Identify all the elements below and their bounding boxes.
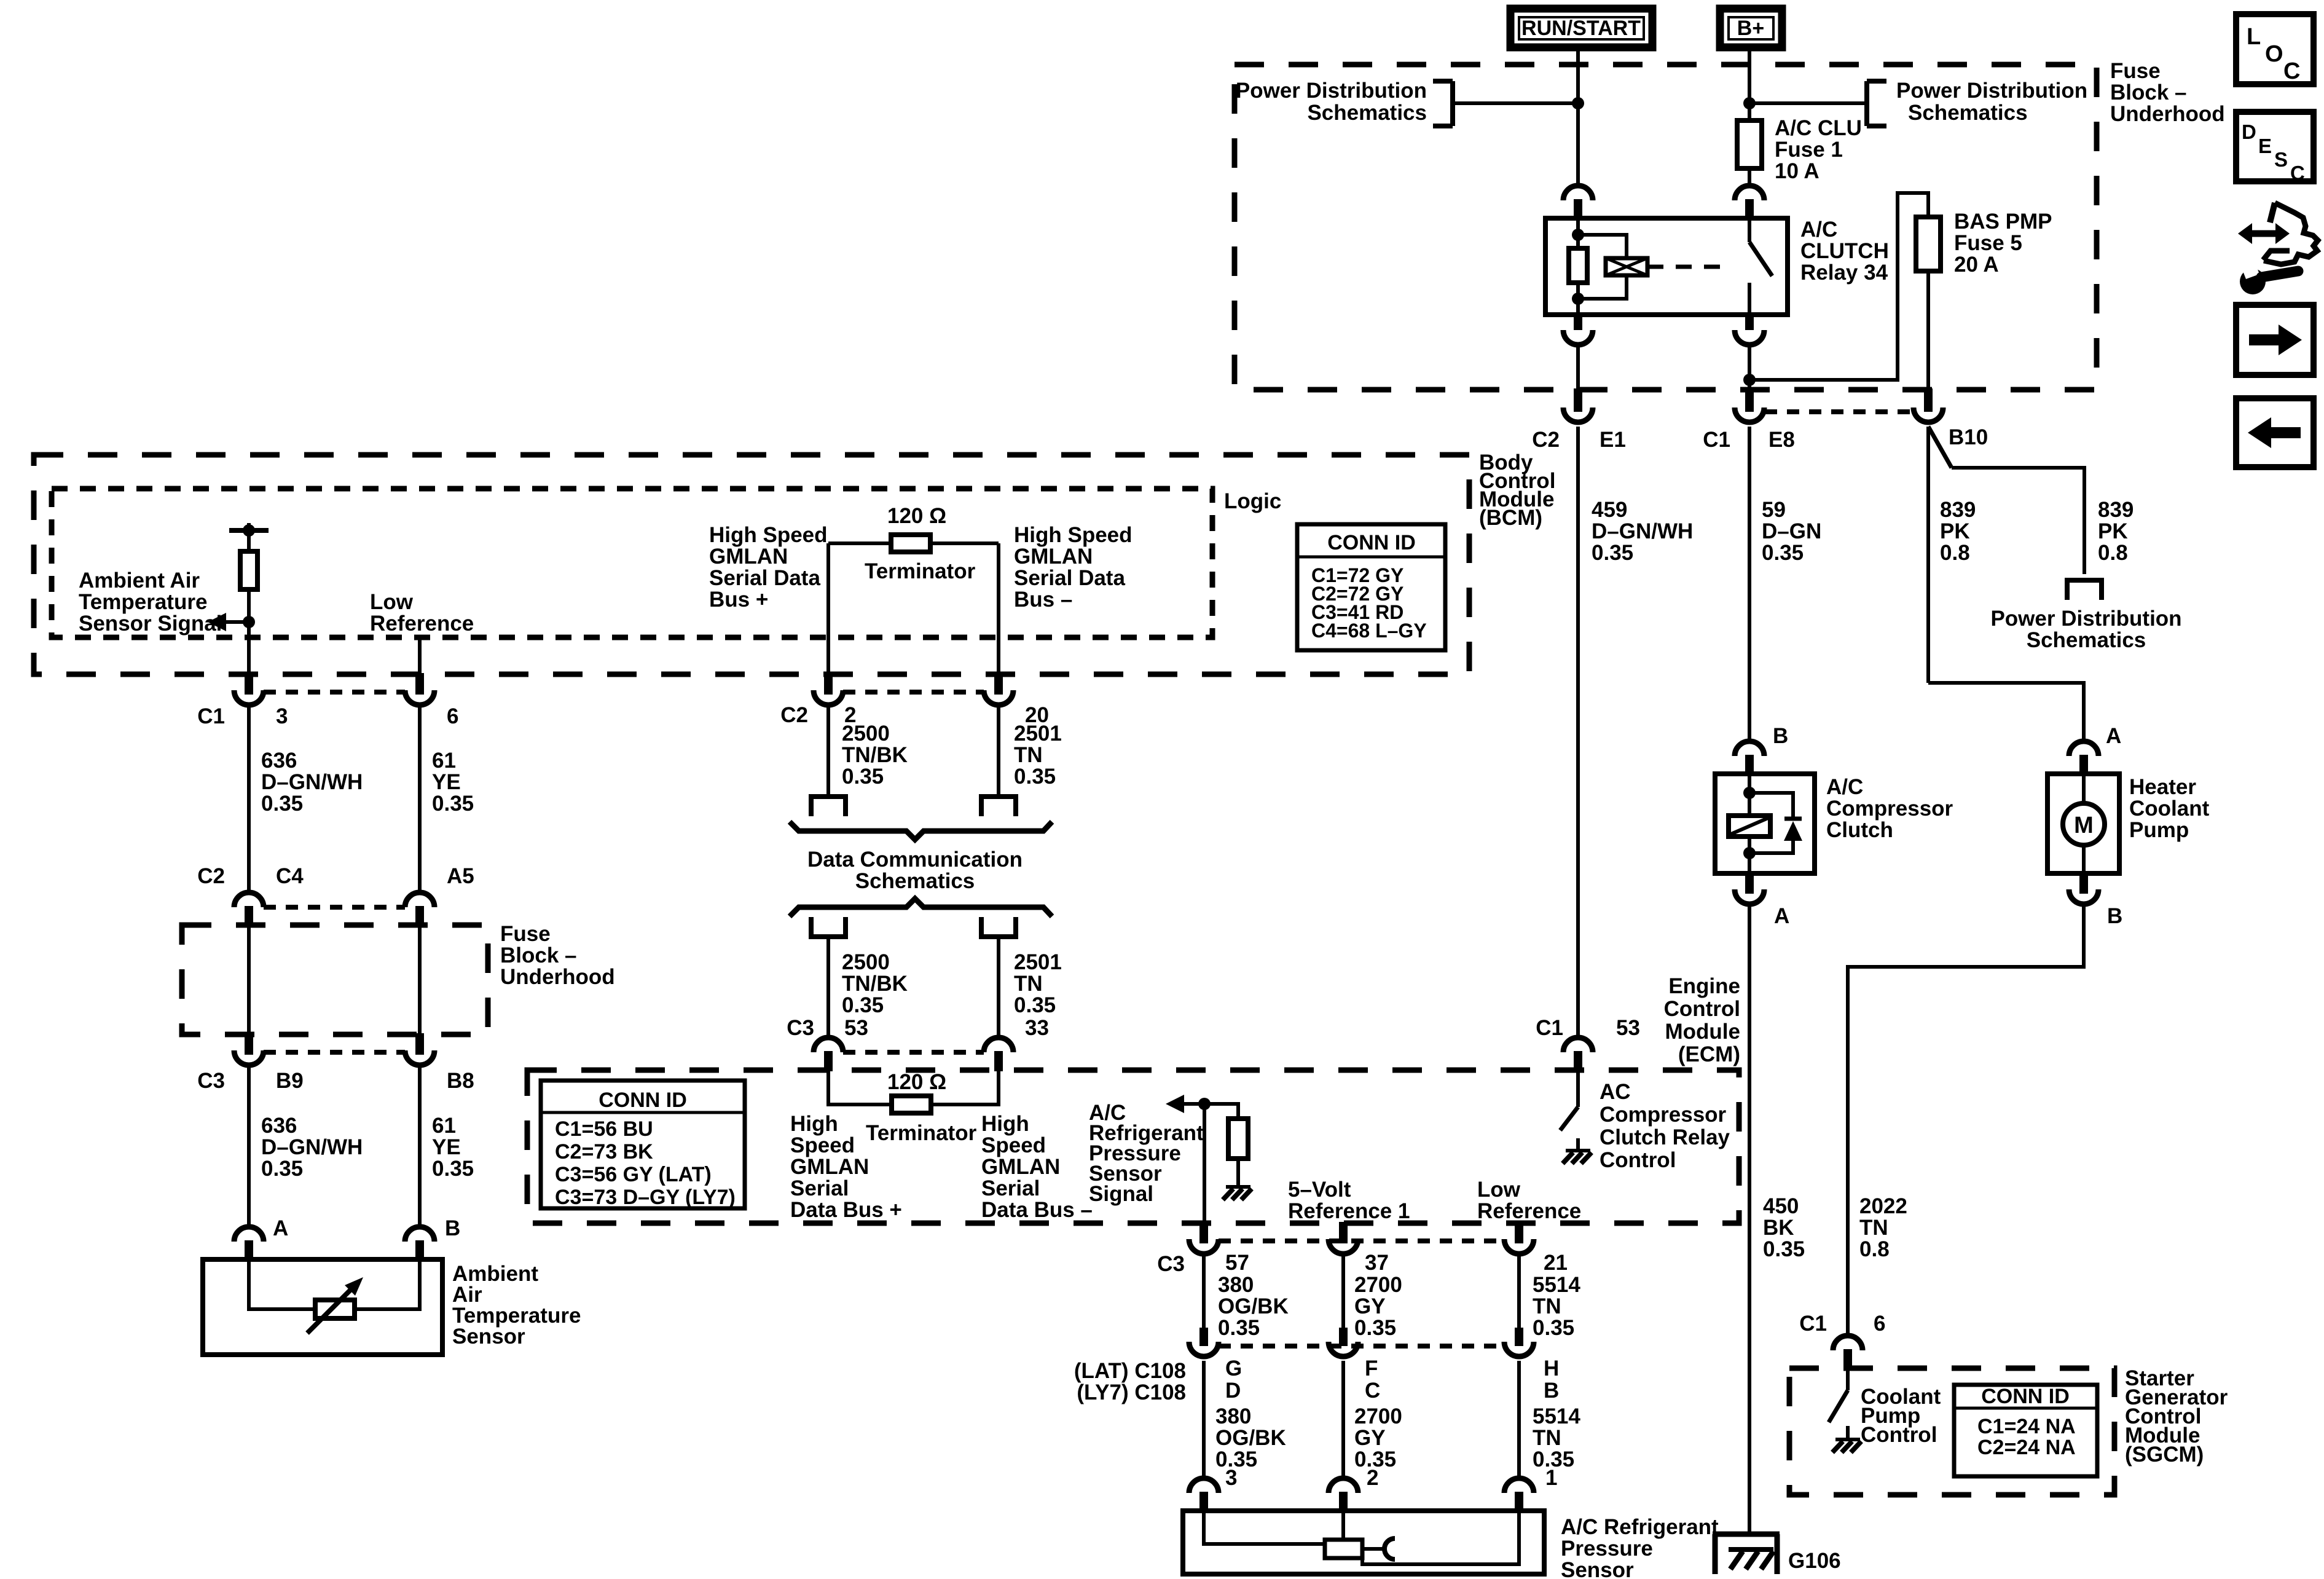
label C2 left [197,864,225,888]
svg-text:D: D [2242,120,2256,143]
wire 2500 upper [826,707,830,797]
svg-text:TN: TN [1859,1216,1888,1240]
svg-text:Engine: Engine [1668,974,1740,998]
label pin 53 [844,1016,868,1040]
label 120 ohm BCM [887,504,946,528]
label pin C [1365,1379,1380,1403]
svg-text:Block –: Block – [2110,81,2187,104]
svg-text:CONN ID: CONN ID [1981,1385,2070,1408]
wire to BAS PMP fuse [1749,193,1928,380]
svg-text:TN: TN [1014,972,1043,996]
label C1 at E8 [1703,428,1730,452]
node junction BAS PMP branch [1743,374,1756,386]
motor M heater coolant pump [2063,775,2105,872]
wire 636 through fuse block [247,926,251,1033]
CONN ID table BCM [1297,524,1445,650]
wire 2700 upper [1341,1256,1345,1328]
svg-text:High Speed: High Speed [1014,523,1133,547]
label A/C refrigerant pressure sensor [1561,1515,1719,1579]
icon wrench-arrows [2238,203,2318,294]
tie line E8 to B10 [1765,409,1914,414]
pressure transducer element [1325,1512,1395,1559]
svg-text:2500: 2500 [842,950,890,974]
connector C1/6 SGCM [1833,1336,1863,1369]
svg-text:S: S [2274,148,2288,171]
svg-text:PK: PK [2098,519,2128,543]
wire 839 PK diagonal [1928,427,1952,468]
wire relay out left [1576,345,1580,390]
clutch coil [1729,816,1770,837]
svg-text:2: 2 [1367,1466,1378,1490]
svg-text:A: A [273,1216,288,1240]
svg-text:(LY7) C108: (LY7) C108 [1077,1380,1186,1404]
label B8 [447,1069,474,1093]
svg-text:A: A [2106,724,2121,748]
label pin 21 [1544,1251,1568,1275]
label C1 left [197,704,225,728]
svg-text:G: G [1225,1357,1242,1380]
label G106 [1788,1549,1841,1573]
connector C108 F/C [1329,1328,1358,1357]
label data communication schematics [807,848,1023,893]
svg-text:D–GN: D–GN [1762,519,1821,543]
svg-text:B9: B9 [276,1069,304,1093]
svg-text:2700: 2700 [1354,1404,1402,1428]
label pin 6 sgcm [1874,1312,1885,1336]
node junction B+ feed [1743,97,1756,109]
svg-text:120 Ω: 120 Ω [887,504,946,528]
svg-text:C3: C3 [1157,1252,1185,1276]
svg-text:C2=24 NA: C2=24 NA [1977,1436,2076,1459]
svg-text:839: 839 [1940,498,1976,522]
svg-text:A/C: A/C [1826,775,1863,799]
label terminator ECM [866,1121,977,1145]
label A/C compressor clutch [1826,775,1953,842]
label power distribution schematics right [1896,79,2087,125]
svg-text:Compressor: Compressor [1826,797,1953,821]
label engine control module ECM [1664,974,1740,1066]
wire clutch coil top [1748,775,1751,816]
label wire 636 lower [261,1114,363,1181]
wire 2501 lower [997,937,1000,1039]
svg-text:Coolant: Coolant [2129,797,2210,821]
svg-text:Schematics: Schematics [2027,628,2146,652]
svg-text:B: B [2107,904,2122,928]
wire 5514 lower [1517,1361,1521,1479]
wire to power distribution right [1749,101,1867,105]
svg-text:Fuse: Fuse [2110,59,2161,83]
label pin 20 [1025,703,1049,727]
svg-text:0.8: 0.8 [1940,541,1970,565]
svg-text:C1=56 BU: C1=56 BU [555,1117,653,1141]
svg-text:A/C: A/C [1800,218,1837,242]
svg-text:High Speed: High Speed [709,523,828,547]
tie line pins B9-B8 [264,1050,405,1055]
wire 839 PK to power distribution [1952,468,2084,574]
label Logic [1224,489,1281,513]
wire sensor internal left [249,1261,315,1309]
svg-text:GMLAN: GMLAN [790,1155,869,1179]
svg-text:380: 380 [1215,1404,1251,1428]
svg-text:6: 6 [447,704,458,728]
label C3 left [197,1069,225,1093]
label BAS PMP fuse 5 20 A [1954,210,2052,277]
svg-text:GY: GY [1354,1426,1386,1450]
svg-text:Fuse 5: Fuse 5 [1954,231,2022,255]
svg-text:Schematics: Schematics [1908,101,2028,125]
brace data communication upper [790,822,1052,840]
svg-text:Pressure: Pressure [1561,1537,1653,1561]
label power distribution schematics left [1236,79,1427,125]
svg-text:53: 53 [1616,1016,1640,1040]
wire 380 upper [1202,1256,1206,1328]
arrow ambient sensor signal [208,613,249,631]
connector C1/53 ECM [1563,1038,1593,1071]
svg-text:Fuse 1: Fuse 1 [1775,138,1843,162]
label pin B clutch [1773,724,1788,748]
label wire 2501 upper [1014,722,1062,789]
label C1 ecm [1536,1016,1563,1040]
svg-text:0.35: 0.35 [842,993,884,1017]
off-page bracket power distribution left [1433,81,1453,126]
brace data communication lower [790,899,1052,916]
connector clutch pin B [1735,741,1764,775]
svg-text:0.35: 0.35 [842,765,884,789]
connector B8 [405,1033,434,1065]
connector C108 H/B [1504,1328,1534,1357]
svg-text:6: 6 [1874,1312,1885,1336]
net label RUN/START [1510,9,1652,47]
svg-text:Block –: Block – [500,943,577,967]
svg-text:5514: 5514 [1533,1273,1580,1297]
connector C1/6 [405,673,434,705]
svg-text:33: 33 [1025,1016,1049,1040]
label A5 [447,864,474,888]
label pin A clutch [1774,904,1789,928]
label wire 2700 lower [1354,1404,1402,1471]
wire 636 lower [247,1067,251,1227]
svg-text:57: 57 [1225,1251,1249,1275]
svg-text:(SGCM): (SGCM) [2125,1443,2204,1467]
svg-text:BAS PMP: BAS PMP [1954,210,2052,234]
label pin B pump [2107,904,2122,928]
wire B+ to fuse 1 [1748,47,1751,120]
fuse block underhood dashed box [1235,65,2097,390]
wire 59 D-GN [1748,427,1751,742]
label pin 2 [844,703,856,727]
label high speed gmlan bus+ BCM [709,523,828,612]
svg-text:D: D [1225,1379,1241,1403]
svg-text:PK: PK [1940,519,1970,543]
connector C2/E1 [1563,388,1593,422]
BCM outer dashed box [34,455,1469,674]
label A/C CLUTCH Relay 34 [1800,218,1889,285]
connector relay pin bottom left [1563,313,1593,345]
label ambient air temperature sensor [452,1262,581,1349]
wire 2500 lower [826,937,830,1039]
svg-text:59: 59 [1762,498,1786,522]
terminal bracket bottom right [979,917,1018,937]
label wire 2700 upper [1354,1273,1402,1340]
label AC compressor clutch relay control [1600,1080,1730,1172]
svg-text:Relay 34: Relay 34 [1800,261,1888,285]
svg-text:Schematics: Schematics [855,869,975,893]
label C1 sgcm [1799,1312,1827,1336]
wire 450 BK [1748,906,1751,1534]
svg-text:TN: TN [1533,1294,1561,1318]
wire sensor internal right [355,1261,420,1309]
svg-text:C3=56 GY (LAT): C3=56 GY (LAT) [555,1163,712,1186]
svg-text:TN: TN [1014,743,1043,767]
svg-text:A5: A5 [447,864,474,888]
label pin D [1225,1379,1241,1403]
CONN ID table ECM [541,1081,745,1209]
svg-text:C4: C4 [276,864,304,888]
connector pin 37 [1329,1222,1358,1254]
wire 459 D-GN/WH [1576,427,1580,1039]
svg-text:TN/BK: TN/BK [842,972,908,996]
connector pump pin B [2069,872,2098,904]
svg-text:C1: C1 [1799,1312,1827,1336]
svg-text:Schematics: Schematics [1307,101,1427,125]
svg-text:0.8: 0.8 [1859,1237,1890,1261]
svg-text:Signal: Signal [1089,1182,1153,1206]
svg-text:C: C [2290,162,2305,184]
svg-text:0.35: 0.35 [432,1157,474,1181]
connector C2/2 [814,673,843,705]
label fuse block underhood [2110,59,2225,126]
svg-text:Underhood: Underhood [2110,102,2225,126]
svg-text:D–GN/WH: D–GN/WH [261,770,363,794]
svg-text:D–GN/WH: D–GN/WH [1592,519,1693,543]
connector C3/B9 [234,1033,264,1065]
wire relay coil top [1576,219,1580,248]
ground G106 [1713,1534,1780,1574]
svg-text:37: 37 [1365,1251,1389,1275]
svg-text:3: 3 [276,704,288,728]
wire 636 upper [247,707,251,892]
label terminator BCM [865,559,976,583]
svg-text:Power Distribution: Power Distribution [1896,79,2087,103]
wire 2022 TN [1848,906,2084,1337]
label wire 839 right [2098,498,2134,565]
label LY7 C108 [1077,1380,1186,1404]
label wire 459 [1592,498,1693,565]
tie line C108 [1219,1344,1504,1349]
node relay coil top junction [1572,229,1584,241]
label pin 1 [1545,1466,1557,1490]
label high speed gmlan bus- ECM [981,1112,1093,1222]
svg-text:O: O [2265,41,2283,67]
svg-text:2500: 2500 [842,722,890,746]
svg-text:Module: Module [1665,1020,1740,1044]
svg-text:Heater: Heater [2129,775,2196,799]
svg-text:AC: AC [1600,1080,1631,1104]
svg-text:0.35: 0.35 [432,792,474,816]
wire 61 through fuse block [418,926,422,1033]
svg-text:0.35: 0.35 [261,792,303,816]
wire low reference from logic [418,637,422,673]
label fuse block underhood left [500,922,615,989]
wire BAS PMP fuse to B10 [1926,271,1930,390]
tie line pins C4-A5 [264,905,405,910]
svg-text:B: B [1544,1379,1559,1403]
svg-text:Ambient Air: Ambient Air [79,569,200,593]
label E8 [1769,428,1795,452]
label pin F [1365,1357,1378,1380]
svg-text:CLUTCH: CLUTCH [1800,239,1889,263]
label C3 gmlan [787,1016,814,1040]
svg-text:C1=24 NA: C1=24 NA [1977,1415,2076,1438]
label pin 6 [447,704,458,728]
svg-text:Compressor: Compressor [1600,1103,1727,1127]
connector C3/53 [814,1038,843,1071]
svg-text:GY: GY [1354,1294,1386,1318]
svg-text:5514: 5514 [1533,1404,1580,1428]
svg-text:(BCM): (BCM) [1479,506,1542,530]
ECM dashed box [527,1070,1739,1223]
label ambient air temperature sensor signal [79,569,222,636]
label B10 [1949,425,1988,449]
svg-text:C2: C2 [1532,428,1560,452]
svg-text:636: 636 [261,749,297,773]
svg-text:20 A: 20 A [1954,253,1999,277]
node clutch junction bottom [1743,847,1756,859]
label wire 450 [1763,1194,1805,1261]
svg-text:F: F [1365,1357,1378,1380]
svg-text:A/C CLU: A/C CLU [1775,116,1862,140]
connector relay pin top left [1563,186,1593,219]
svg-text:YE: YE [432,770,461,794]
svg-text:C4=68 L–GY: C4=68 L–GY [1311,620,1427,642]
node junction RUN/START feed [1572,97,1584,109]
svg-text:Reference 1: Reference 1 [1288,1199,1410,1223]
svg-text:C3: C3 [197,1069,225,1093]
label pin G [1225,1357,1242,1380]
tie line pins 2-20 [843,690,984,695]
svg-text:0.35: 0.35 [1592,541,1633,565]
SGCM dashed box [1789,1368,2114,1495]
connector C1/3 [234,673,264,705]
svg-text:0.35: 0.35 [261,1157,303,1181]
ground pull-up pressure [1223,1187,1252,1200]
svg-text:Serial: Serial [790,1176,849,1200]
ground AC relay control [1563,1151,1592,1164]
wire 839 PK to heater pump [1928,427,2084,742]
label body control module BCM [1479,451,1555,530]
resistor pull-up pressure signal [1204,1104,1248,1187]
ambient air temperature sensor box [203,1259,442,1355]
terminal bracket bottom left [809,917,848,937]
svg-text:0.35: 0.35 [1762,541,1804,565]
fuse F1 A/C CLU 10A [1737,120,1762,168]
svg-text:Data Bus +: Data Bus + [790,1198,902,1222]
label 120 ohm ECM [887,1070,946,1094]
label starter generator control module SGCM [2125,1366,2228,1467]
relay solenoid valve symbol [1606,258,1647,275]
svg-text:High: High [790,1112,838,1136]
node sensor signal source tick [229,523,269,537]
label wire 59 [1762,498,1821,565]
svg-text:0.35: 0.35 [1354,1316,1396,1340]
connector clutch pin A [1735,872,1764,904]
connector sensor pin 3 [1189,1478,1219,1512]
label pin B [445,1216,460,1240]
wire 5514 upper [1517,1256,1521,1328]
svg-text:B: B [1773,724,1788,748]
svg-text:B+: B+ [1737,17,1764,40]
terminal bracket power distribution [2065,580,2104,600]
wire gmlan bus+ BCM [826,543,830,673]
net label B+ [1720,9,1782,47]
svg-text:Bus +: Bus + [709,588,768,612]
switch coolant pump control [1829,1369,1848,1439]
svg-text:459: 459 [1592,498,1627,522]
wire relay coil bottom [1576,283,1580,316]
icon LOC box [2236,14,2314,84]
svg-text:Clutch: Clutch [1826,818,1893,842]
wire sensor internal return [1362,1512,1519,1564]
terminal bracket top left [809,797,848,816]
label high speed gmlan bus+ ECM [790,1112,902,1222]
CONN ID table SGCM [1954,1385,2097,1476]
ground coolant pump control [1832,1439,1861,1452]
svg-text:Data Bus –: Data Bus – [981,1198,1093,1222]
svg-text:Terminator: Terminator [866,1121,977,1145]
svg-text:B: B [445,1216,460,1240]
svg-text:Serial: Serial [981,1176,1040,1200]
connector C3/57 [1189,1222,1219,1254]
svg-text:380: 380 [1218,1273,1254,1297]
svg-text:CONN ID: CONN ID [599,1089,687,1112]
svg-text:Speed: Speed [790,1133,855,1157]
tie line pins 57-21 [1219,1238,1504,1243]
label coolant pump control [1861,1385,1941,1447]
wire 61 lower [418,1067,422,1227]
label pin 33 [1025,1016,1049,1040]
svg-text:53: 53 [844,1016,868,1040]
svg-text:2501: 2501 [1014,950,1062,974]
svg-text:21: 21 [1544,1251,1568,1275]
svg-text:5–Volt: 5–Volt [1288,1178,1351,1202]
svg-text:Control: Control [1861,1423,1937,1447]
svg-text:Sensor: Sensor [1561,1558,1634,1579]
label wire 2500 lower [842,950,908,1017]
label C2 gmlan [780,703,808,727]
wire RUN/START to relay [1576,47,1580,186]
switch AC compressor clutch relay control [1560,1071,1578,1151]
wire 2700 lower [1341,1361,1345,1479]
svg-text:Clutch Relay: Clutch Relay [1600,1125,1730,1149]
fuse F5 BAS PMP 20A [1916,217,1941,271]
svg-text:GMLAN: GMLAN [1014,545,1093,569]
svg-text:Underhood: Underhood [500,965,615,989]
svg-text:C: C [2283,58,2300,84]
label high speed gmlan bus- BCM [1014,523,1133,612]
resistor 120 ohm terminator BCM [828,535,999,552]
svg-text:0.35: 0.35 [1014,993,1056,1017]
svg-text:Speed: Speed [981,1133,1046,1157]
svg-text:GMLAN: GMLAN [709,545,788,569]
svg-text:839: 839 [2098,498,2134,522]
svg-text:Reference: Reference [370,612,474,636]
svg-text:B8: B8 [447,1069,474,1093]
svg-text:GMLAN: GMLAN [981,1155,1060,1179]
label C4 [276,864,304,888]
svg-text:RUN/START: RUN/START [1521,17,1641,40]
label wire 380 upper [1218,1273,1289,1340]
resistor pull-up ambient signal [240,530,257,673]
